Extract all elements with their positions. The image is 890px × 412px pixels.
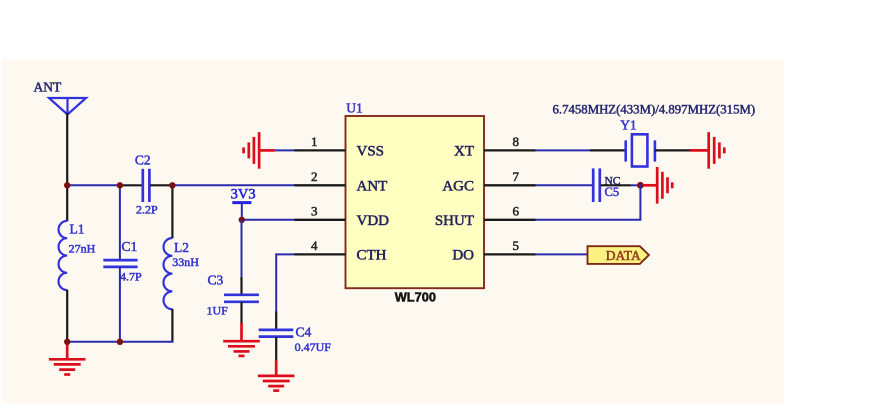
wire VSS ground to pin1: [275, 149, 296, 151]
wire C1 top: [119, 184, 121, 259]
svg-text:1: 1: [311, 134, 318, 149]
inductor L1: [59, 221, 68, 290]
crystal Y1: [626, 134, 655, 166]
junction dot C5: [637, 182, 644, 189]
capacitor C3 top pin: [240, 277, 242, 295]
wire pin7 to C5: [536, 184, 593, 186]
wire C2 right stub: [150, 184, 172, 186]
capacitor C4: [259, 330, 294, 337]
ground GND1: [49, 342, 86, 375]
ground GND C3: [223, 323, 260, 356]
svg-text:2.2P: 2.2P: [136, 203, 158, 217]
svg-text:27nH: 27nH: [69, 242, 96, 256]
capacitor C1: [103, 260, 137, 267]
ground GND C4: [258, 360, 295, 391]
wire 3V3 to pin3 VDD: [242, 219, 296, 221]
capacitor C5: [593, 168, 600, 202]
pin 2 stub: [295, 184, 346, 186]
svg-text:C2: C2: [135, 153, 151, 168]
svg-text:CTH: CTH: [357, 247, 387, 263]
pin 6 stub: [484, 219, 536, 221]
wire pin5 DO to DATA port: [536, 253, 589, 255]
pin 3 stub: [295, 219, 346, 221]
junction dot bus-antenna: [64, 182, 70, 188]
svg-text:SHUT: SHUT: [435, 213, 474, 229]
svg-text:4: 4: [311, 238, 318, 253]
svg-text:C5: C5: [605, 185, 620, 199]
inductor L1 bottom stub: [66, 290, 68, 342]
wire 3V3 down to C3: [241, 220, 243, 278]
svg-text:6: 6: [513, 203, 520, 218]
svg-text:VSS: VSS: [357, 143, 385, 159]
antenna ANT: [49, 98, 86, 115]
svg-text:7: 7: [513, 169, 520, 184]
svg-text:4.7P: 4.7P: [120, 270, 142, 284]
wire C1 bottom: [119, 267, 121, 342]
svg-text:1UF: 1UF: [207, 304, 229, 318]
svg-text:VDD: VDD: [357, 213, 390, 229]
pin 8 stub: [484, 149, 536, 151]
svg-text:ANT: ANT: [34, 80, 62, 95]
svg-text:U1: U1: [346, 101, 363, 116]
svg-text:33nH: 33nH: [172, 255, 199, 269]
crystal Y1 right pin: [655, 149, 691, 151]
wire SHUT net horizontal: [536, 219, 642, 221]
pin 4 stub: [295, 253, 346, 255]
svg-text:C4: C4: [296, 325, 312, 340]
wire pin4 CTH horizontal: [276, 253, 295, 255]
capacitor C4 top pin: [275, 312, 277, 330]
junction dot bus-C1: [117, 182, 123, 188]
junction dot 3V3: [239, 217, 245, 223]
svg-text:0.47UF: 0.47UF: [295, 340, 332, 354]
wire C2 left stub: [120, 184, 142, 186]
capacitor C3: [224, 295, 259, 302]
wire bottom bus: [66, 341, 174, 343]
wire bus right segment to pin2: [172, 184, 295, 186]
wire bus left segment: [66, 184, 121, 186]
svg-text:DATA: DATA: [606, 248, 641, 263]
svg-text:3: 3: [311, 203, 318, 218]
inductor L2 bottom stub: [171, 309, 173, 342]
power port 3V3: [231, 187, 256, 221]
svg-text:3V3: 3V3: [231, 187, 256, 203]
svg-text:C1: C1: [122, 239, 138, 254]
svg-text:8: 8: [513, 134, 520, 149]
capacitor C5 right pin: [601, 184, 632, 186]
inductor L2: [163, 238, 172, 309]
svg-text:Y1: Y1: [620, 118, 637, 133]
inductor L2 top stub: [171, 185, 173, 238]
svg-text:L2: L2: [174, 240, 189, 255]
wire pin4 CTH vertical: [275, 253, 277, 312]
schematic background sheet: [2, 60, 784, 404]
svg-text:L1: L1: [70, 222, 85, 237]
svg-text:ANT: ANT: [357, 178, 388, 194]
capacitor C3 bottom pin: [240, 302, 242, 323]
wire antenna to bus: [66, 113, 68, 186]
pin 1 stub: [295, 149, 346, 151]
wire C5 to junction: [631, 184, 641, 186]
svg-text:6.7458MHZ(433M)/4.897MHZ(315M): 6.7458MHZ(433M)/4.897MHZ(315M): [553, 103, 756, 117]
port DATA: [588, 246, 649, 264]
svg-text:2: 2: [311, 169, 318, 184]
svg-text:AGC: AGC: [442, 178, 474, 194]
op-amp U1 body: [346, 116, 485, 288]
inductor L1 top stub: [66, 185, 68, 221]
crystal Y1 left pin: [590, 149, 626, 151]
svg-text:C3: C3: [208, 273, 224, 288]
ground GND VSS (left pointing): [244, 132, 275, 169]
svg-text:DO: DO: [452, 247, 474, 263]
wire pin8 to crystal: [536, 149, 591, 151]
svg-text:XT: XT: [454, 143, 474, 159]
wire SHUT net vertical: [639, 184, 641, 219]
ground GND C5 (right pointing): [643, 167, 673, 204]
pin 7 stub: [484, 184, 536, 186]
ground GND Y1 (right pointing): [690, 132, 724, 169]
junction dot bottom-C1: [117, 339, 123, 345]
capacitor C2: [143, 169, 150, 202]
pin 5 stub: [484, 253, 536, 255]
junction dot bottom-L1: [64, 339, 70, 345]
svg-text:WL700: WL700: [395, 290, 436, 305]
capacitor C4 bottom pin: [275, 337, 277, 360]
junction dot bus-L2: [169, 182, 175, 188]
svg-text:5: 5: [513, 238, 520, 253]
